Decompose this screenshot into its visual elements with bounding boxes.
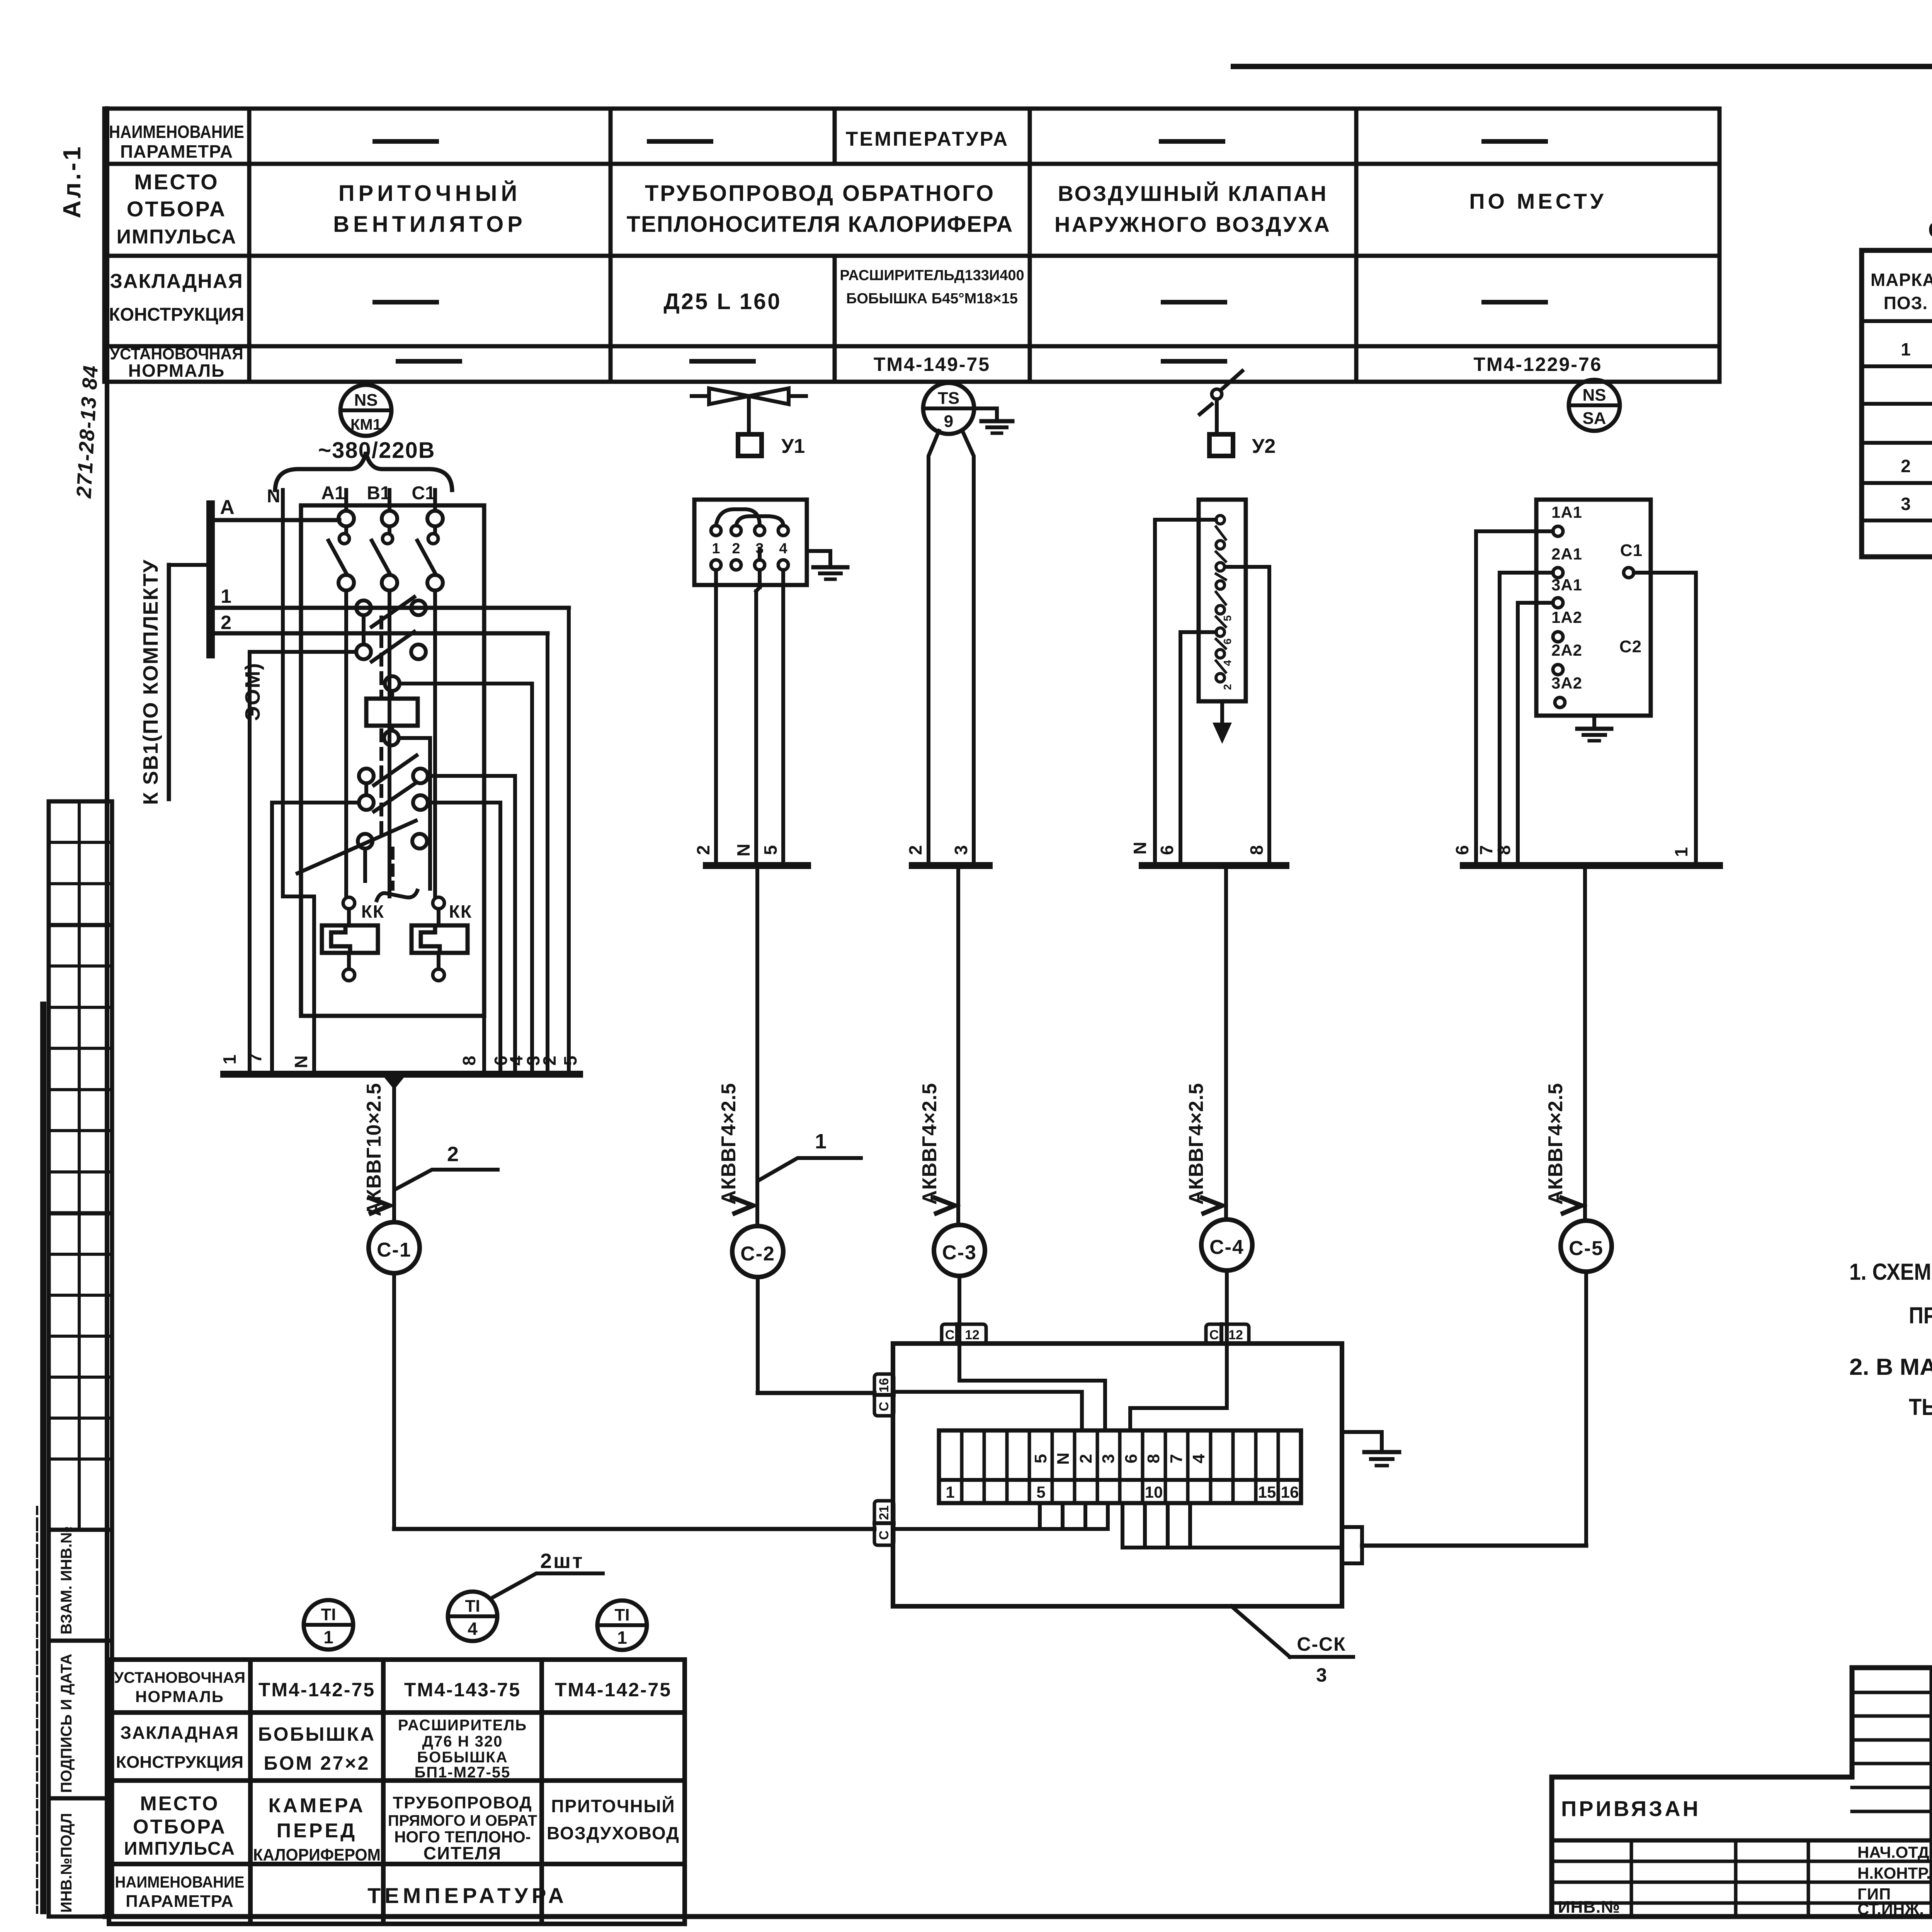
sheet left border xyxy=(105,109,109,1917)
KK linkage bracket (redraw) xyxy=(377,891,417,900)
internal route to C-5 exit xyxy=(1122,1503,1342,1548)
drop wire 5 xyxy=(567,608,571,1074)
svg-text:ПРИТОЧНОЙ СИСТЕМЫ И ПРИМЕНИМА: ПРИТОЧНОЙ СИСТЕМЫ И ПРИМЕНИМА ДЛЯ СИСТЕМ… xyxy=(1909,1303,1932,1328)
Y2 internal contact chain xyxy=(1216,515,1226,682)
svg-text:А: А xyxy=(220,496,235,519)
svg-text:5: 5 xyxy=(1031,1454,1050,1463)
bus 2 xyxy=(213,631,548,636)
thermal relay KK at x=903 xyxy=(322,897,378,981)
wire A1 top xyxy=(344,490,348,511)
svg-text:2шт: 2шт xyxy=(540,1549,584,1573)
svg-text:ТЕМПЕРАТУРА: ТЕМПЕРАТУРА xyxy=(846,128,1009,150)
svg-text:ИМПУЛЬСА: ИМПУЛЬСА xyxy=(117,226,237,248)
svg-text:Н.КОНТР.: Н.КОНТР. xyxy=(1857,1864,1931,1882)
coil bottom terminal xyxy=(384,731,430,889)
svg-text:С: С xyxy=(877,1402,891,1412)
svg-text:ТЕПЛОНОСИТЕЛЯ КАЛОРИФЕРА: ТЕПЛОНОСИТЕЛЯ КАЛОРИФЕРА xyxy=(627,212,1014,237)
svg-text:ТS: ТS xyxy=(938,389,959,408)
top header table row 3 cells xyxy=(375,267,1546,314)
top header table row 1 cells xyxy=(375,128,1546,150)
drop wire 6 xyxy=(498,803,502,1074)
svg-text:1: 1 xyxy=(221,585,231,607)
SA wire 1 down xyxy=(1634,573,1696,866)
left terminal bracket xyxy=(206,505,215,654)
cable label AKVVG4x2.5 C-5 xyxy=(1544,1083,1567,1204)
cable C-4 to box xyxy=(1225,1270,1229,1344)
svg-text:ТМ4-149-75: ТМ4-149-75 xyxy=(874,354,990,375)
top header table grid xyxy=(104,109,1719,382)
label C-CK 3 with leader xyxy=(1231,1606,1353,1686)
svg-text:1А1: 1А1 xyxy=(1551,503,1582,521)
signature rows labels xyxy=(1857,1843,1932,1918)
svg-text:БОБЫШКА: БОБЫШКА xyxy=(417,1749,508,1766)
table 1 header texts xyxy=(1871,269,1932,313)
SA wire 6 down xyxy=(1476,531,1553,866)
Y1 internal jumper arcs xyxy=(716,509,783,560)
cable C-5 down xyxy=(1583,866,1587,1221)
svg-text:7: 7 xyxy=(245,1053,265,1063)
top header table row 2 cells xyxy=(333,181,1607,237)
svg-text:12: 12 xyxy=(1228,1328,1243,1342)
svg-text:Д76 Н 320: Д76 Н 320 xyxy=(422,1733,503,1750)
cable C-2 to box xyxy=(758,1277,874,1393)
svg-text:12: 12 xyxy=(965,1328,980,1342)
svg-text:6: 6 xyxy=(1122,1454,1141,1463)
SA terminal 2A2 xyxy=(1551,641,1582,675)
aux contact pair on line 2 xyxy=(356,632,426,662)
title block left grid xyxy=(1552,1840,1932,1917)
label B1 xyxy=(367,483,390,503)
svg-text:ИНВ.№: ИНВ.№ xyxy=(1558,1898,1620,1917)
svg-text:КОНСТРУКЦИЯ: КОНСТРУКЦИЯ xyxy=(116,1753,243,1772)
instrument bubble TI circle 3 xyxy=(597,1600,647,1650)
TS9 ground lead xyxy=(974,408,997,421)
svg-text:3: 3 xyxy=(1901,494,1911,514)
svg-text:КК: КК xyxy=(449,901,472,922)
svg-text:ТМ4-142-75: ТМ4-142-75 xyxy=(259,1679,375,1701)
svg-text:СТ.ИНЖ.: СТ.ИНЖ. xyxy=(1857,1900,1924,1918)
wire from aux pair to bus 1 drop xyxy=(250,652,356,1074)
left edge microfilm text strip xyxy=(37,1005,43,1913)
aux contact pair row 3 xyxy=(359,755,515,795)
Y1 wire 5 down xyxy=(781,570,785,866)
Y1 ground lead xyxy=(807,551,830,567)
svg-text:3А2: 3А2 xyxy=(1551,674,1582,692)
contactor coil KM1 xyxy=(366,691,418,731)
svg-text:ТМ4-143-75: ТМ4-143-75 xyxy=(404,1679,521,1701)
main contact KM1 phase A xyxy=(328,511,354,896)
svg-text:КМ1: КМ1 xyxy=(350,416,381,433)
svg-text:В1: В1 xyxy=(367,483,390,503)
svg-text:ЗАКЛАДНАЯ: ЗАКЛАДНАЯ xyxy=(120,1723,239,1743)
svg-text:1: 1 xyxy=(815,1130,827,1153)
brace over supply wires xyxy=(275,452,452,490)
supply label ~380/220V xyxy=(318,438,435,463)
cable arrowhead C-3 xyxy=(935,1198,955,1213)
TS9 capillary right wire xyxy=(963,432,974,866)
aux contact pair row 4 xyxy=(272,782,500,1074)
svg-text:3: 3 xyxy=(1099,1454,1118,1463)
svg-text:4: 4 xyxy=(779,541,787,557)
svg-text:С-2: С-2 xyxy=(740,1243,775,1265)
wire C1 top xyxy=(433,490,437,511)
Y1 wire N down xyxy=(756,570,760,866)
svg-text:С-3: С-3 xyxy=(942,1242,977,1264)
svg-text:АКВВГ4×2.5: АКВВГ4×2.5 xyxy=(1185,1083,1207,1204)
svg-text:НАИМЕНОВАНИЕ: НАИМЕНОВАНИЕ xyxy=(109,122,244,142)
svg-text:2: 2 xyxy=(1221,684,1233,690)
svg-text:NS: NS xyxy=(1582,386,1606,405)
cable circle C-1 xyxy=(369,1222,420,1273)
svg-text:ВОЗДУХОВОД: ВОЗДУХОВОД xyxy=(547,1823,680,1843)
bus wire label 7 xyxy=(245,1053,265,1063)
margin text Al.-1 (rotated) xyxy=(58,144,86,218)
cable label AKVVG4x2.5 C-2 xyxy=(718,1083,740,1204)
drop wire 8 xyxy=(482,1016,486,1074)
cable arrowhead C-5 xyxy=(1561,1198,1582,1213)
top header table row labels xyxy=(109,122,244,381)
svg-text:С: С xyxy=(945,1328,955,1342)
svg-text:2: 2 xyxy=(732,541,740,557)
svg-text:ВЗАМ. ИНВ.№: ВЗАМ. ИНВ.№ xyxy=(58,1526,75,1634)
svg-text:2: 2 xyxy=(447,1143,459,1166)
svg-text:N: N xyxy=(733,844,753,856)
svg-text:С-5: С-5 xyxy=(1569,1237,1604,1260)
circuit 1 bottom bus xyxy=(224,1074,580,1090)
bus wire label 1 xyxy=(219,1054,240,1065)
svg-text:7: 7 xyxy=(1476,845,1496,855)
svg-text:2: 2 xyxy=(1077,1454,1095,1463)
aux contact pair on line 1 xyxy=(356,597,426,645)
SA wire 8 down xyxy=(1518,603,1553,866)
svg-text:3: 3 xyxy=(1316,1664,1327,1686)
solenoid square Y1 xyxy=(738,434,762,456)
internal route from C-1 entry xyxy=(894,1503,1108,1529)
leader 2 to cable C-1 xyxy=(395,1143,498,1189)
svg-text:СИТЕЛЯ: СИТЕЛЯ xyxy=(423,1843,502,1863)
svg-text:ПАРАМЕТРА: ПАРАМЕТРА xyxy=(120,141,233,162)
svg-text:С1: С1 xyxy=(412,483,435,503)
cable circle C-2 xyxy=(732,1226,783,1277)
label PRIVYAZAN xyxy=(1561,1796,1701,1821)
svg-text:5: 5 xyxy=(1036,1483,1045,1501)
svg-text:РАСШИРИТЕЛЬ: РАСШИРИТЕЛЬ xyxy=(398,1717,527,1734)
bus wire label N xyxy=(291,1055,311,1068)
svg-text:КК: КК xyxy=(361,901,384,922)
title block revision grid xyxy=(1852,1668,1932,1917)
internal route from C-3 entry xyxy=(959,1344,1105,1430)
svg-text:НОРМАЛЬ: НОРМАЛЬ xyxy=(135,1687,224,1706)
margin handwritten doc number 271-28-13 84 (rotated) xyxy=(72,364,102,499)
svg-text:У1: У1 xyxy=(781,435,805,457)
svg-text:8: 8 xyxy=(1494,845,1514,855)
cable C-4 down xyxy=(1224,866,1228,1219)
svg-text:9: 9 xyxy=(944,412,953,431)
svg-text:2: 2 xyxy=(905,845,925,855)
cable tag C12 top left xyxy=(942,1324,986,1344)
circuit 2 bus xyxy=(706,862,808,869)
svg-text:ИНВ.№ПОДЛ: ИНВ.№ПОДЛ xyxy=(58,1813,75,1913)
svg-text:ПРЯМОГО И ОБРАТ: ПРЯМОГО И ОБРАТ xyxy=(388,1812,537,1829)
svg-text:10: 10 xyxy=(1145,1483,1163,1501)
instrument bubble TS 9 xyxy=(923,383,974,434)
Y1 box terminals bottom row xyxy=(711,560,788,570)
svg-text:7: 7 xyxy=(1167,1454,1186,1463)
svg-text:3: 3 xyxy=(951,845,971,855)
svg-text:МЕСТО: МЕСТО xyxy=(134,170,219,194)
label 2sht with leader xyxy=(492,1549,603,1598)
svg-text:5: 5 xyxy=(760,845,781,855)
svg-text:2А2: 2А2 xyxy=(1551,641,1582,659)
svg-text:NS: NS xyxy=(354,391,378,410)
bus wire label 8 xyxy=(459,1056,479,1066)
Y2 contact numbers xyxy=(1221,615,1233,690)
svg-text:N: N xyxy=(1054,1452,1073,1465)
svg-text:БП1-М27-55: БП1-М27-55 xyxy=(415,1764,511,1781)
svg-text:1: 1 xyxy=(712,541,720,557)
svg-text:N: N xyxy=(267,486,281,507)
internal route from C-2 entry xyxy=(894,1392,1082,1430)
cable label AKVVG4x2.5 C-4 xyxy=(1185,1083,1207,1204)
bus wire label 4 xyxy=(506,1056,526,1066)
label Y1 xyxy=(781,435,805,457)
svg-text:1А2: 1А2 xyxy=(1551,608,1582,626)
svg-text:СПЕЦИФИКАЦИЯ ЭЛЕМЕНТОВ СИСТЕ: СПЕЦИФИКАЦИЯ ЭЛЕМЕНТОВ СИСТЕМ П1, П2 xyxy=(1928,218,1932,243)
svg-text:УСТАНОВОЧНАЯ: УСТАНОВОЧНАЯ xyxy=(114,1669,245,1686)
junction box KSK-16 outline xyxy=(893,1344,1342,1606)
Y2 wire 6 down xyxy=(1180,632,1216,866)
instrument bubble TI circle 1 xyxy=(304,1600,353,1650)
svg-text:2. В МАРКИРОВКЕ КАБЕЛЕЙ ВМЕСТО: 2. В МАРКИРОВКЕ КАБЕЛЕЙ ВМЕСТО ИНДЕКСА „… xyxy=(1849,1354,1932,1380)
cable arrowhead C-1 xyxy=(369,1198,389,1213)
table 1 row 5 xyxy=(1901,494,1932,514)
notes line 4 xyxy=(1909,1394,1932,1420)
svg-text:ЗАКЛАДНАЯ: ЗАКЛАДНАЯ xyxy=(110,270,243,293)
svg-text:15: 15 xyxy=(1258,1483,1276,1501)
svg-text:ПО МЕСТУ: ПО МЕСТУ xyxy=(1469,189,1606,213)
svg-text:6: 6 xyxy=(1221,638,1233,645)
SA label C2 xyxy=(1619,637,1642,656)
SA terminal C1 xyxy=(1620,541,1643,578)
svg-text:1: 1 xyxy=(617,1628,627,1648)
circuit 4 bus xyxy=(1142,862,1286,869)
K SB1 tie line xyxy=(169,565,211,799)
ground symbol at SA xyxy=(1577,729,1611,741)
valve symbol Y1 xyxy=(692,388,806,434)
left sidebar section VZAM.INV. xyxy=(49,1526,112,1641)
svg-text:N: N xyxy=(1130,842,1150,854)
svg-text:КАМЕРА: КАМЕРА xyxy=(269,1794,366,1817)
svg-text:МАРКА,: МАРКА, xyxy=(1871,270,1932,290)
svg-text:16: 16 xyxy=(1281,1483,1299,1501)
thermal relay KK at x=1135 xyxy=(412,897,468,981)
svg-text:ТЬ НОМЕР СИСТЕМЫ СОГЛАСНО ТАБЛ: ТЬ НОМЕР СИСТЕМЫ СОГЛАСНО ТАБЛ 2 xyxy=(1909,1394,1932,1420)
label Y2 xyxy=(1252,435,1276,457)
cable C-1 to box xyxy=(394,1273,874,1529)
svg-text:РАСШИРИТЕЛЬД133И400: РАСШИРИТЕЛЬД133И400 xyxy=(840,267,1024,284)
starter enclosure box xyxy=(301,505,484,1016)
left sidebar revision grid xyxy=(49,801,112,1530)
SA ground stem xyxy=(1592,716,1596,729)
bottom-left table texts xyxy=(114,1669,680,1911)
svg-text:1: 1 xyxy=(1671,847,1691,857)
svg-text:КОНСТРУКЦИЯ: КОНСТРУКЦИЯ xyxy=(109,304,244,325)
table 1 row 4 xyxy=(1901,456,1932,477)
svg-text:БОМ 27×2: БОМ 27×2 xyxy=(264,1752,370,1774)
Y1 wire 2 down xyxy=(714,570,718,866)
cable circle C-3 xyxy=(934,1225,985,1276)
main contact KM1 phase C xyxy=(417,511,443,896)
cable circle C-4 xyxy=(1201,1219,1252,1270)
svg-text:3А1: 3А1 xyxy=(1551,576,1582,594)
svg-text:ПОЗ.: ПОЗ. xyxy=(1884,293,1928,313)
svg-text:SА: SА xyxy=(1582,409,1606,428)
svg-text:С-4: С-4 xyxy=(1209,1236,1244,1259)
svg-text:НАЧ.ОТД: НАЧ.ОТД xyxy=(1857,1843,1929,1861)
svg-text:ТI: ТI xyxy=(614,1605,629,1624)
svg-text:С: С xyxy=(877,1531,891,1540)
svg-text:2: 2 xyxy=(221,612,231,633)
SA terminal 2A1 xyxy=(1551,545,1582,578)
svg-text:1: 1 xyxy=(323,1627,333,1647)
coil top terminal xyxy=(385,676,532,691)
bus wire label 5 xyxy=(560,1056,580,1066)
svg-text:ТМ4-1229-76: ТМ4-1229-76 xyxy=(1473,354,1602,375)
svg-text:ТРУБОПРОВОД: ТРУБОПРОВОД xyxy=(393,1793,532,1812)
mechanical linkage dashed xyxy=(381,617,393,889)
cable C-2 down xyxy=(755,866,759,1226)
drop wire 3 xyxy=(530,684,534,1074)
circuit 5 bus xyxy=(1463,862,1719,869)
wire N vertical xyxy=(283,490,314,1074)
svg-text:8: 8 xyxy=(459,1056,479,1066)
label INV.N xyxy=(1558,1898,1620,1917)
cable label AKVVG4x2.5 C-3 xyxy=(918,1083,941,1204)
cable C-3 down xyxy=(956,866,960,1225)
aux contact pair row 5 xyxy=(298,821,427,881)
cable label AKVVG10x2.5 xyxy=(363,1083,385,1216)
cable C-5 to box xyxy=(1362,1272,1586,1546)
svg-text:1. СХЕМА СОЕДИНЕНИЙ ВНЕШНИХ ПР: 1. СХЕМА СОЕДИНЕНИЙ ВНЕШНИХ ПРОВОДОК СОС… xyxy=(1849,1259,1932,1285)
svg-text:АКВВГ4×2.5: АКВВГ4×2.5 xyxy=(918,1083,941,1204)
cable arrowhead C-4 xyxy=(1202,1198,1222,1213)
svg-text:4: 4 xyxy=(1189,1454,1208,1463)
ground symbol at Y1 xyxy=(813,567,847,579)
TS9 capillary left wire xyxy=(929,431,939,866)
label KK right xyxy=(449,901,472,922)
svg-text:ПРИТОЧНЫЙ: ПРИТОЧНЫЙ xyxy=(338,181,521,206)
svg-text:А1: А1 xyxy=(321,483,345,503)
svg-text:2: 2 xyxy=(539,1056,560,1066)
svg-text:С-СК: С-СК xyxy=(1297,1633,1346,1655)
svg-text:4: 4 xyxy=(1221,660,1233,666)
title block outer frame xyxy=(1552,1668,1932,1917)
svg-text:БОБЫШКА Б45°М18×15: БОБЫШКА Б45°М18×15 xyxy=(846,291,1018,307)
svg-text:С-1: С-1 xyxy=(377,1239,412,1261)
svg-text:ПРИВЯЗАН: ПРИВЯЗАН xyxy=(1561,1796,1701,1821)
label N xyxy=(267,486,281,507)
svg-text:16: 16 xyxy=(877,1378,891,1393)
svg-text:АКВВГ4×2.5: АКВВГ4×2.5 xyxy=(1544,1083,1567,1204)
svg-text:С: С xyxy=(1209,1328,1219,1342)
ground symbol at TS9 xyxy=(981,421,1012,433)
svg-text:ПАРАМЕТРА: ПАРАМЕТРА xyxy=(126,1892,234,1911)
svg-text:ВЕНТИЛЯТОР: ВЕНТИЛЯТОР xyxy=(333,212,526,237)
label A1 xyxy=(321,483,345,503)
svg-text:ТI: ТI xyxy=(465,1597,480,1616)
svg-text:МЕСТО: МЕСТО xyxy=(140,1793,219,1815)
svg-text:8: 8 xyxy=(1247,845,1267,855)
drop wire 4 xyxy=(513,776,517,1074)
svg-text:АКВВГ4×2.5: АКВВГ4×2.5 xyxy=(718,1083,740,1204)
svg-text:ТI: ТI xyxy=(321,1605,336,1624)
cable circle C-5 xyxy=(1561,1221,1612,1272)
Y1 terminal numbers xyxy=(712,541,787,557)
notes line 1 xyxy=(1849,1259,1932,1285)
top header table row 4 cells xyxy=(398,354,1602,375)
label 1 xyxy=(221,585,231,607)
svg-text:НОРМАЛЬ: НОРМАЛЬ xyxy=(128,361,225,381)
switch symbol above Y2 xyxy=(1200,371,1242,434)
terminal numbers lower row xyxy=(946,1483,1299,1501)
svg-text:8: 8 xyxy=(1144,1454,1163,1463)
svg-text:1: 1 xyxy=(946,1483,954,1501)
svg-text:Ал.-1: Ал.-1 xyxy=(58,144,86,218)
wire B1 top xyxy=(388,490,391,511)
svg-text:~380/220В: ~380/220В xyxy=(318,438,435,463)
SA terminal 3A2 xyxy=(1551,674,1582,707)
SA terminal 1A1 xyxy=(1551,503,1582,536)
svg-text:Д25 L 160: Д25 L 160 xyxy=(663,289,781,314)
svg-text:ТРУБОПРОВОД ОБРАТНОГО: ТРУБОПРОВОД ОБРАТНОГО xyxy=(645,181,995,206)
svg-text:С1: С1 xyxy=(1620,541,1643,560)
svg-text:К SB1(ПО КОМПЛЕКТУ: К SB1(ПО КОМПЛЕКТУ xyxy=(139,559,162,805)
cable C-3 to box xyxy=(957,1276,961,1344)
ground symbol at box xyxy=(1364,1452,1399,1466)
sheet bottom border (left of title block) xyxy=(105,1914,1552,1919)
main contact KM1 phase B xyxy=(372,511,397,896)
internal route from C-4 entry xyxy=(1130,1344,1227,1430)
svg-text:2А1: 2А1 xyxy=(1551,545,1582,563)
bottom-left parameter table grid xyxy=(109,1660,685,1924)
terminal wire numbers upper row (rotated) xyxy=(1031,1452,1208,1465)
label 2 xyxy=(221,612,231,633)
svg-text:ВОЗДУШНЫЙ КЛАПАН: ВОЗДУШНЫЙ КЛАПАН xyxy=(1058,181,1328,206)
cable tag C16 left upper xyxy=(874,1374,894,1416)
svg-text:КАЛОРИФЕРОМ: КАЛОРИФЕРОМ xyxy=(253,1845,381,1864)
table 1 grid xyxy=(1862,250,1932,557)
svg-text:1: 1 xyxy=(1901,339,1911,359)
left sidebar section PODPIS I DATA xyxy=(49,1641,112,1798)
left sidebar section INV.N PODL xyxy=(49,1798,112,1917)
sheet top border line xyxy=(1233,64,1932,69)
leader 1 to cable C-2 xyxy=(759,1130,861,1180)
svg-text:N: N xyxy=(291,1055,311,1068)
cable arrowhead C-2 xyxy=(733,1198,753,1213)
table 1 title xyxy=(1928,218,1932,243)
bus wire label 6 xyxy=(491,1056,511,1066)
Y2 wire N down xyxy=(1155,520,1216,866)
circuit 3 bus xyxy=(912,862,989,869)
svg-text:ОТБОРА: ОТБОРА xyxy=(127,197,226,221)
svg-text:УСТАНОВОЧНАЯ: УСТАНОВОЧНАЯ xyxy=(110,345,243,363)
box side bump right xyxy=(1342,1527,1362,1563)
svg-text:2: 2 xyxy=(693,845,713,855)
svg-text:4: 4 xyxy=(468,1619,478,1639)
label KK left xyxy=(361,901,384,922)
svg-text:У2: У2 xyxy=(1252,435,1276,457)
selector box SA xyxy=(1536,500,1651,716)
